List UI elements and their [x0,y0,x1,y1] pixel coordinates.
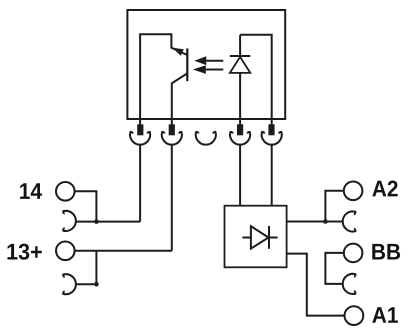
wire LED loop / pin5 [240,35,272,125]
wire collector / pin2 [172,73,188,124]
terminal circle A2 [344,182,363,201]
diode V1 cathode bar [268,226,270,249]
label terminal BB [372,244,400,260]
wire LED cathode up [239,35,241,56]
wire diode box to A1 [287,254,345,316]
wire 14 to junction [75,191,97,221]
terminal circle 14 [56,182,75,201]
light arrow 2 [193,65,223,74]
wire socket2 down to node 13 [171,144,173,250]
junction node 14 [94,219,99,224]
junction node A2 [323,219,328,224]
wire 13+ to socket2 [75,250,172,252]
wire emitter loop / pin1 [140,34,187,124]
socket 1 [130,132,150,145]
diode V1 cathode wire [269,237,278,239]
pin 2 plug [169,124,175,135]
wire 13+ branch down [95,251,97,284]
wire socket5 down to diode box [271,144,273,205]
wire socket1 down to node 14 [139,144,141,221]
terminal socket under 14 [63,211,76,231]
terminal socket under BB [343,274,356,294]
pin 5 plug [268,124,274,135]
diode V1 anode wire [242,237,251,239]
diode V1 triangle [251,226,269,248]
socket 4 [230,132,250,145]
wire socket4 down to diode box [239,144,241,205]
LED D1 triangle [230,57,250,73]
junction node 13+ [94,282,99,287]
label terminal 14 [20,183,42,199]
optocoupler U1 outer box [127,10,285,119]
transistor Q1 emitter arrowhead [172,48,184,56]
terminal socket under 13+ [63,274,76,294]
terminal socket under A2 [343,211,356,231]
diode module V1 box [225,206,287,268]
wire 14 socket to junction [75,221,140,223]
socket 2 [162,132,182,145]
terminal circle A1 [345,306,364,325]
transistor Q1 base bar [186,48,188,81]
label terminal 13+ [7,244,41,260]
wire LED anode / pin4 [239,73,241,125]
socket 3 (empty) [196,132,216,145]
wire BB bracket [325,253,343,284]
label terminal A1 [372,307,398,323]
LED D1 cathode bar [230,55,250,57]
wire A2 bracket [325,191,343,222]
terminal circle BB [344,244,363,263]
socket 5 [262,132,282,145]
wire diode box to A2 [287,221,344,223]
label terminal A2 [372,181,397,197]
wire 13+ socket to junction [75,283,96,285]
terminal circle 13+ [56,242,75,261]
pin 1 plug [137,124,143,135]
pin 4 plug [237,124,243,135]
light arrow 1 [194,56,223,65]
